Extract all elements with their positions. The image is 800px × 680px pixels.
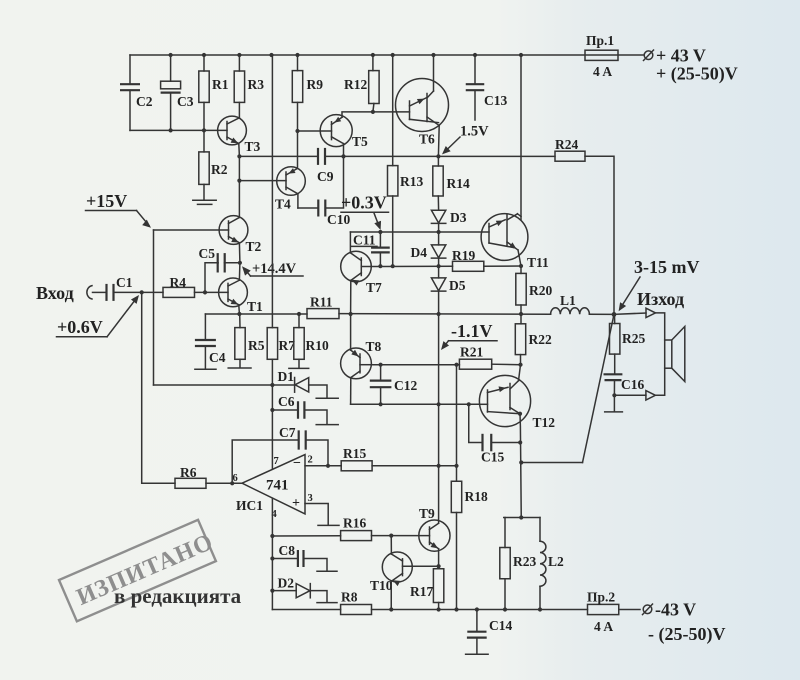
resistor R2 <box>203 130 205 152</box>
input terminal <box>87 286 92 299</box>
svg-text:C2: C2 <box>136 94 153 109</box>
junction dots on R15 line <box>437 464 441 468</box>
wire lower bus to T3 base node <box>130 129 204 131</box>
svg-text:C8: C8 <box>279 543 296 558</box>
wire +15V vertical feed <box>153 230 155 385</box>
svg-text:741: 741 <box>266 478 289 494</box>
capacitor C1 <box>105 284 107 301</box>
wire C2 bottom <box>129 90 131 130</box>
svg-text:6: 6 <box>233 473 238 484</box>
wire T4 base lead <box>239 180 286 182</box>
ground below C8 <box>317 570 337 572</box>
resistor R7 <box>267 328 277 360</box>
svg-text:C4: C4 <box>209 350 226 365</box>
transistor T10 <box>382 552 412 582</box>
svg-text:R14: R14 <box>447 176 470 191</box>
svg-text:+ 43 V: + 43 V <box>656 46 706 66</box>
arrow 1.5V <box>445 137 461 152</box>
capacitor C13 <box>474 55 476 84</box>
capacitor C8 <box>272 558 298 560</box>
wire R1 bottom <box>203 102 205 130</box>
resistor R14 <box>437 156 439 166</box>
svg-text:R21: R21 <box>460 345 483 360</box>
junction dot T12 emitter <box>518 412 522 416</box>
wire T7 collector up <box>349 232 351 253</box>
svg-text:T11: T11 <box>527 255 549 270</box>
svg-text:R19: R19 <box>452 248 475 263</box>
svg-text:Пр.2: Пр.2 <box>587 590 615 605</box>
wire T6 emitter to driver rail <box>437 126 440 157</box>
junction dots lower bus <box>169 128 173 132</box>
wire T12 emitter down to tee <box>520 414 521 518</box>
wire T6 collector to top rail <box>433 55 435 91</box>
svg-text:R3: R3 <box>248 77 265 92</box>
svg-text:D5: D5 <box>449 278 466 293</box>
resistor R20 <box>520 266 522 273</box>
wire T5 emitter to driver rail <box>343 144 345 157</box>
stamp IZPITANO <box>59 518 220 621</box>
junction dots emitter column <box>518 440 522 444</box>
wire R23 to rail <box>504 579 506 610</box>
wire negative rail mid <box>372 609 588 611</box>
wire tee below T12 emitter <box>504 517 540 519</box>
wire feedback column <box>456 365 458 466</box>
svg-text:Пр.1: Пр.1 <box>586 33 614 48</box>
junction dot T10 collector tap <box>389 534 393 538</box>
wire pin2 line to R15 <box>305 465 341 467</box>
junction dots pin4 column <box>270 534 274 538</box>
wire driver rail to R24 <box>325 155 555 157</box>
transistor T3 <box>218 116 247 145</box>
capacitor C10 <box>317 200 319 217</box>
ground below C14 <box>466 653 489 655</box>
svg-text:T9: T9 <box>419 506 435 521</box>
wire R17 to rail <box>438 603 440 610</box>
svg-text:+0.6V: +0.6V <box>57 317 103 337</box>
svg-text:T1: T1 <box>247 299 263 314</box>
wire pin3 jog <box>305 504 328 525</box>
wire T11 collector from top rail <box>520 55 522 220</box>
transistor T9 <box>419 520 450 551</box>
svg-text:ИС1: ИС1 <box>236 498 263 513</box>
wire T4 emitter to C10 line <box>297 194 299 208</box>
junction dot T4 base tap <box>237 179 241 183</box>
junction dot T9 emitter node <box>437 564 441 568</box>
svg-text:2: 2 <box>308 455 313 466</box>
wire T3 emitter down <box>238 144 241 157</box>
junction dots mid rail <box>237 312 241 316</box>
transistor T11 <box>481 214 528 261</box>
svg-text:R4: R4 <box>170 275 187 290</box>
inductor L1 <box>551 308 590 314</box>
ground below pin3 <box>318 524 339 526</box>
svg-text:R5: R5 <box>248 338 265 353</box>
ground below C6 <box>316 424 338 426</box>
wire C5 right <box>224 262 240 264</box>
arrow 3-15mV <box>621 277 641 308</box>
svg-text:C5: C5 <box>199 246 216 261</box>
diode D1 <box>272 384 294 386</box>
capacitor C9 <box>317 148 319 165</box>
wire R2 to ground <box>203 184 205 200</box>
capacitor C4 <box>204 314 206 340</box>
wire R6 feed from input node <box>142 292 175 483</box>
svg-text:R6: R6 <box>180 465 197 480</box>
wire R16 to T9 base <box>372 535 430 537</box>
junction dots on top rail <box>169 53 173 57</box>
fuse Pr.2 <box>588 604 619 614</box>
wire C3 top <box>170 55 172 81</box>
resistor R13 <box>392 55 394 166</box>
wire T8 collector line to R21 <box>371 364 459 366</box>
wire C3 bottom <box>170 93 172 131</box>
capacitor C6 <box>272 409 298 411</box>
svg-text:T10: T10 <box>370 578 393 593</box>
svg-text:C15: C15 <box>481 450 504 465</box>
wire input to C1 <box>93 291 107 293</box>
svg-text:4 A: 4 A <box>593 64 612 79</box>
junction dot C7/pin2 <box>326 464 330 468</box>
junction dot output node <box>612 312 617 317</box>
svg-text:T6: T6 <box>419 132 435 147</box>
resistor R1 <box>203 55 205 71</box>
wire R15 to feedback column <box>372 465 456 467</box>
svg-text:C11: C11 <box>353 233 376 248</box>
wire T9 emitter down <box>438 549 440 566</box>
svg-text:4 A: 4 A <box>594 619 613 634</box>
svg-text:R7: R7 <box>279 338 296 353</box>
junction dots driver rail <box>237 154 241 158</box>
wire R18 top lead <box>456 466 458 481</box>
wire R21 to R22 node <box>492 363 521 366</box>
wire T11 emitter down <box>518 250 521 266</box>
wire T7 emitter to mid rail <box>350 280 352 314</box>
wire to speaker bottom <box>655 368 664 395</box>
capacitor C7 <box>298 430 300 449</box>
wire T5 collector to T6 base line <box>342 112 410 117</box>
diode D3 <box>437 196 439 210</box>
arrow +14.4V <box>245 269 251 276</box>
junction dots V+ column <box>270 383 274 387</box>
wire R24 to output node <box>585 156 614 314</box>
transistor T4 <box>277 167 306 196</box>
wire R16 line from pin4 column <box>272 535 340 537</box>
ground below R10 <box>289 367 309 369</box>
resistor R25 <box>614 314 616 323</box>
svg-text:C12: C12 <box>394 378 417 393</box>
svg-text:L2: L2 <box>548 554 564 569</box>
ground below R5 <box>228 367 251 369</box>
svg-text:R8: R8 <box>341 590 358 605</box>
resistor R9 <box>297 55 299 71</box>
wire R4 to T1 base <box>195 291 229 293</box>
svg-text:C13: C13 <box>484 93 507 108</box>
junction dot R12 bottom <box>371 110 375 114</box>
terminal +43V <box>644 51 653 60</box>
wire D4 to node <box>438 258 440 266</box>
svg-text:R9: R9 <box>307 77 324 92</box>
svg-text:C1: C1 <box>116 275 133 290</box>
wire driver rail left of C9 <box>239 155 317 157</box>
capacitor C5 <box>217 253 219 272</box>
wire R20 to mid rail <box>520 305 522 314</box>
svg-text:+14.4V: +14.4V <box>252 261 297 277</box>
svg-text:R23: R23 <box>513 554 536 569</box>
svg-text:1.5V: 1.5V <box>460 124 489 140</box>
speaker LS <box>665 340 672 368</box>
wire R10 to ground <box>298 359 300 368</box>
svg-text:D2: D2 <box>278 576 295 591</box>
wire D1 feed line from +15V column <box>154 384 273 386</box>
wire T10 collector up <box>390 536 392 554</box>
ground below C4 <box>195 368 216 370</box>
wire L2 top lead <box>539 518 541 542</box>
wire R7 to pin7 column <box>271 359 273 469</box>
resistor R12 <box>372 55 374 71</box>
svg-text:C16: C16 <box>621 377 644 392</box>
resistor R5 <box>239 314 241 328</box>
resistor R8 <box>341 605 372 615</box>
wire output node to terminal <box>614 313 646 314</box>
transistor T8 <box>341 348 372 379</box>
wire R13 bottom <box>392 196 394 266</box>
junction dot C16 bottom node <box>612 393 616 397</box>
svg-text:T2: T2 <box>246 239 262 254</box>
wire pin4 column <box>271 498 273 609</box>
resistor R6 <box>175 478 206 488</box>
wire T7 base line <box>371 265 452 267</box>
svg-text:T7: T7 <box>366 280 382 295</box>
ground below D2 <box>317 602 337 604</box>
arrow +0.6V <box>107 298 137 337</box>
resistor R16 <box>341 531 372 541</box>
wire C16 bottom stub <box>613 395 615 411</box>
svg-text:R20: R20 <box>529 283 552 298</box>
wire T8 input from mid rail <box>350 314 352 350</box>
transistor T1 <box>219 278 248 307</box>
wire top +43V supply rail <box>130 54 643 56</box>
resistor R22 <box>520 314 522 324</box>
svg-text:Изход: Изход <box>637 289 684 309</box>
wire C1 to input node <box>114 291 142 293</box>
arrow -1.1V <box>443 341 449 348</box>
wire C15 right <box>491 442 520 444</box>
diode D2 <box>272 590 296 592</box>
svg-text:C6: C6 <box>278 394 295 409</box>
svg-text:R15: R15 <box>343 446 366 461</box>
svg-text:C9: C9 <box>317 169 334 184</box>
wire T1 collector <box>238 263 241 280</box>
wire V+ column top rail to R7 <box>271 55 273 328</box>
svg-text:T12: T12 <box>533 415 556 430</box>
wire T5 base lead <box>298 130 332 132</box>
svg-text:R17: R17 <box>410 584 433 599</box>
wire R22 bottom lead <box>520 355 522 365</box>
wire R3 to T3 collector <box>238 102 240 117</box>
wire C10 to C9 node <box>326 156 344 208</box>
wire L1 to output node <box>589 313 614 315</box>
wire mid rail right <box>339 313 551 316</box>
ground below D1 <box>316 397 338 399</box>
wire bias column D5 to T9 collector <box>438 291 440 523</box>
capacitor C15 <box>481 434 483 452</box>
wire D3 to node <box>438 223 440 232</box>
junction dots T12 base line <box>379 402 383 406</box>
svg-text:-43 V: -43 V <box>655 600 696 620</box>
svg-text:D1: D1 <box>278 369 295 384</box>
junction dot R22 bottom node <box>518 363 522 367</box>
wire C8 right jog <box>304 559 328 571</box>
svg-text:R11: R11 <box>310 295 333 310</box>
arrow +15V <box>137 211 150 226</box>
resistor R11 <box>307 309 339 319</box>
wire L2 to rail <box>539 586 541 609</box>
svg-text:Вход: Вход <box>36 283 74 303</box>
transistor T7 <box>341 251 372 282</box>
wire speaker bottom line <box>614 394 646 396</box>
svg-text:R2: R2 <box>211 162 228 177</box>
svg-text:T8: T8 <box>366 339 382 354</box>
wire T10 emitter to rail <box>390 581 392 610</box>
wire top-left drop to C2 <box>129 55 131 84</box>
junction dots T7 base line <box>378 264 382 268</box>
svg-text:7: 7 <box>274 456 279 467</box>
wire C10 line left <box>298 207 318 209</box>
svg-text:−: − <box>293 456 301 471</box>
arrow +0.3V <box>374 213 380 228</box>
wire C7 right jog to pin2 line <box>306 440 328 466</box>
wire output feedback horizontal <box>521 462 582 464</box>
resistor R24 <box>555 151 585 161</box>
junction dot T11 emitter node <box>519 264 523 268</box>
svg-text:+: + <box>292 496 300 511</box>
svg-text:C14: C14 <box>489 618 512 633</box>
wire T10 base line <box>403 565 439 567</box>
wire R5 to ground <box>239 359 241 367</box>
svg-text:C10: C10 <box>327 212 350 227</box>
wire fuse to terminal <box>619 609 640 611</box>
wire C7 jog from output node <box>232 440 299 483</box>
wire R6 to op-amp output <box>206 482 242 484</box>
wire T1 emitter to mid rail <box>238 305 241 314</box>
resistor R17 <box>438 566 440 569</box>
wire T3 base lead <box>204 129 227 131</box>
wire T12 base line <box>351 403 480 405</box>
wire R19 to T11 emitter node <box>484 265 521 267</box>
wire output feedback diagonal <box>583 314 615 462</box>
transistor T2 <box>219 216 248 245</box>
wire T12 collector up <box>519 365 521 381</box>
svg-text:R13: R13 <box>400 174 423 189</box>
svg-text:3-15 mV: 3-15 mV <box>634 257 700 277</box>
svg-text:в редакцията: в редакцията <box>114 584 242 608</box>
output terminal arrow 2 <box>646 391 656 400</box>
transistor T12 <box>479 375 530 426</box>
capacitor C11 <box>379 232 381 247</box>
wire C6 right jog <box>304 410 327 424</box>
svg-text:3: 3 <box>308 493 313 504</box>
resistor R21 <box>459 359 491 369</box>
junction dots negative rail <box>389 607 393 611</box>
junction dot input node <box>140 290 144 294</box>
svg-text:+15V: +15V <box>86 191 127 211</box>
svg-text:R10: R10 <box>306 338 329 353</box>
svg-text:R24: R24 <box>555 137 578 152</box>
transistor T6 <box>396 79 449 132</box>
svg-text:R1: R1 <box>212 77 229 92</box>
op-amp U1 741 <box>242 455 305 514</box>
svg-text:R12: R12 <box>344 77 367 92</box>
fuse Pr.1 <box>585 50 618 60</box>
wire negative rail left <box>272 609 340 611</box>
capacitor C2 <box>120 83 140 85</box>
svg-text:R22: R22 <box>529 332 552 347</box>
wire D1 right jog <box>309 385 327 398</box>
resistor R23 <box>500 548 510 579</box>
diode D5 <box>438 266 440 278</box>
terminal -43V <box>643 605 652 614</box>
svg-text:- (25-50)V: - (25-50)V <box>648 624 725 645</box>
capacitor C14 <box>476 610 478 632</box>
wire D2 right jog <box>310 591 327 602</box>
capacitor C12 <box>380 365 382 381</box>
junction dot C5 tap <box>203 290 207 294</box>
wire T12 base lead <box>480 403 488 405</box>
wire T2 base <box>154 229 229 231</box>
wire R12 bottom lead <box>373 104 374 112</box>
svg-text:R16: R16 <box>343 516 366 531</box>
svg-text:+ (25-50)V: + (25-50)V <box>656 64 738 85</box>
resistor R19 <box>453 261 484 271</box>
svg-text:C3: C3 <box>177 94 194 109</box>
svg-text:+0.3V: +0.3V <box>341 193 387 213</box>
wire R18 to negative rail <box>456 513 458 610</box>
svg-text:T4: T4 <box>275 197 291 212</box>
junction dots collector line <box>379 363 383 367</box>
ground below R2 <box>193 199 216 201</box>
junction dots +0.3V line <box>378 230 382 234</box>
wire mid rail left <box>205 313 307 315</box>
wire +0.3V node line <box>350 231 489 233</box>
capacitor C3 <box>161 81 181 89</box>
svg-text:T5: T5 <box>352 134 368 149</box>
inductor L2 <box>540 541 546 586</box>
output terminal arrow <box>646 308 656 317</box>
svg-text:R25: R25 <box>622 331 645 346</box>
svg-text:D3: D3 <box>450 210 467 225</box>
resistor R18 <box>451 481 461 512</box>
svg-text:C7: C7 <box>279 425 296 440</box>
wire R23 top lead <box>504 518 506 548</box>
wire T3 emitter / T2 collector column <box>238 156 240 217</box>
wire C15 jog <box>469 404 483 442</box>
wire T8 emitter down <box>350 378 352 405</box>
transistor T5 <box>320 115 352 147</box>
svg-text:L1: L1 <box>560 293 576 308</box>
ground below C16 <box>605 411 623 413</box>
svg-text:T3: T3 <box>245 139 261 154</box>
wire C5 left down to input line <box>205 263 218 293</box>
resistor R10 <box>298 314 300 328</box>
junction dot T5 base tap <box>295 129 299 133</box>
capacitor C16 <box>614 354 616 374</box>
svg-text:R18: R18 <box>465 489 488 504</box>
resistor R15 <box>341 461 372 471</box>
wire R9 to T4 collector <box>297 102 299 167</box>
svg-text:D4: D4 <box>411 245 428 260</box>
diode D4 <box>438 232 440 245</box>
wire to speaker top <box>656 313 665 340</box>
